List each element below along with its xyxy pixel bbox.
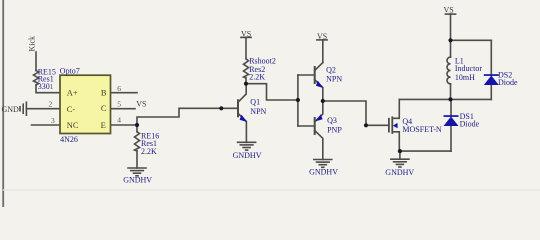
svg-text:VS: VS [444,6,454,15]
power port VS for Q2 [317,40,327,63]
wire junction down to RE16 [136,125,138,132]
svg-text:VS: VS [136,100,146,109]
wire pin4 to junction [111,124,138,126]
opto-coupler box [60,75,111,133]
resistor RE15 [34,71,39,86]
wire emitter node to Q4 gate [323,101,389,125]
wire base rail vertical [297,75,299,126]
transistor Q3 [315,101,323,160]
diode DS1 leads [450,126,452,151]
svg-text:Q1: Q1 [250,98,260,107]
ground GNDHV under Q4 [391,151,409,167]
wire RE16 to ground [136,151,138,168]
diode DS2 leads [490,40,492,75]
svg-text:MOSFET-N: MOSFET-N [402,125,441,134]
svg-text:Opto7: Opto7 [60,66,80,75]
wire GND to pin2 [26,108,60,110]
svg-text:4: 4 [117,116,121,125]
resistor RE16 [135,132,140,151]
svg-text:10mH: 10mH [455,73,475,82]
svg-text:C: C [101,103,107,113]
svg-text:VS: VS [241,29,251,38]
svg-text:5: 5 [117,100,121,109]
wire pin5 to VS [111,108,136,110]
arrow Q2 emitter [316,81,323,88]
sheet bottom border (faint) [3,189,540,191]
svg-text:4N26: 4N26 [60,135,78,144]
inductor L1 [447,40,451,99]
svg-text:GNDHV: GNDHV [385,168,414,177]
svg-text:NC: NC [67,120,79,130]
svg-text:VS: VS [317,32,327,41]
svg-text:Kick: Kick [28,36,37,52]
svg-text:B: B [101,88,107,98]
svg-text:GND: GND [2,105,20,114]
ground GND power symbol [20,102,26,115]
svg-text:6: 6 [117,84,121,93]
wire junction to Q1 base [137,108,238,125]
svg-text:330: 330 [38,82,50,91]
svg-text:A+: A+ [67,88,78,98]
ground GNDHV under RE16 [128,168,146,176]
power port VS right [445,14,455,40]
transistor Q2 [315,63,323,102]
diode DS1 body [444,115,459,126]
svg-text:1: 1 [50,82,54,91]
diode DS2 body [484,74,499,85]
mosfet Q4 [389,99,399,151]
svg-text:Inductor: Inductor [455,64,482,73]
svg-text:PNP: PNP [327,126,342,135]
wire node to Q2/Q3 base rail [246,84,298,100]
svg-text:GNDHV: GNDHV [123,176,152,185]
wire Rshoot2 to Q1 collector node [245,78,247,84]
sheet border [2,0,4,207]
arrow Q3 emitter (points to bar) [315,114,322,121]
arrow Q1 emitter [240,115,247,122]
wire Kick net down to RE15 [35,52,37,71]
svg-text:3: 3 [51,116,55,125]
ground GNDHV under Q1 [238,142,256,150]
wire drain node horizontal [399,98,491,100]
svg-text:GNDHV: GNDHV [233,151,262,160]
wire Q4 source to DS1 anode [400,150,451,152]
svg-text:GNDHV: GNDHV [309,167,338,176]
svg-text:Diode: Diode [460,119,480,128]
svg-text:Q2: Q2 [326,66,336,75]
wire RE15 to pin1 [36,85,60,93]
svg-text:2.2K: 2.2K [249,72,265,81]
wire pin6 stub [111,92,138,94]
resistor Rshoot2 [244,59,249,78]
svg-text:NPN: NPN [326,74,342,83]
wire pin3 NC stub [32,124,61,126]
svg-text:Q3: Q3 [327,116,337,125]
svg-text:C-: C- [67,104,76,114]
power port VS mid [241,37,251,58]
arrow Q4 gate [393,123,398,128]
svg-text:Diode: Diode [498,78,518,87]
wire Q3 base [298,125,315,127]
transistor Q1 [238,84,246,143]
wire top node to DS2 [451,39,492,41]
ground GNDHV under Q3 [314,160,332,168]
svg-text:NPN: NPN [250,107,266,116]
wire Q2 base [298,74,315,76]
svg-text:E: E [101,120,106,130]
svg-text:2: 2 [49,100,53,109]
svg-text:2.2K: 2.2K [141,147,157,156]
